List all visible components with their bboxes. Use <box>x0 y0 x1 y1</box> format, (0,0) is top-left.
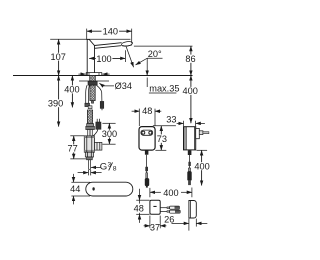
svg-text:390: 390 <box>48 99 63 109</box>
dia 34 label <box>99 81 132 91</box>
pipe diameter ticks <box>78 170 102 176</box>
svg-text:100: 100 <box>96 54 111 64</box>
water stream 20deg line <box>126 47 133 67</box>
deck underside line <box>79 80 109 82</box>
svg-text:48: 48 <box>142 106 152 116</box>
svg-text:400: 400 <box>194 161 209 171</box>
valve neck <box>88 130 93 136</box>
svg-text:44: 44 <box>70 184 80 194</box>
svg-text:107: 107 <box>51 52 66 62</box>
svg-text:20°: 20° <box>148 49 162 59</box>
dimension 86 <box>185 46 196 75</box>
dimension 400 right (cable to PSU) <box>183 76 199 124</box>
svg-text:77: 77 <box>67 144 77 154</box>
valve side outlet <box>95 142 102 150</box>
PSU3 cable 1 with connector <box>160 207 167 209</box>
mounting nut <box>88 81 97 85</box>
dimension 48 (PSU3 height) <box>133 189 149 223</box>
left supply hose <box>86 85 87 103</box>
svg-text:73: 73 <box>157 134 167 144</box>
deck / counter top line <box>13 75 193 77</box>
dimension 48 (PSU width) <box>132 106 162 126</box>
valve assembly: braided inlet hose <box>88 106 92 109</box>
dimension 73 (PSU height) <box>153 126 176 151</box>
plug pin <box>199 131 203 135</box>
dimension 107 <box>51 39 66 75</box>
faucet body side view <box>87 39 133 75</box>
svg-text:37: 37 <box>150 223 160 233</box>
svg-text:140: 140 <box>103 27 118 37</box>
svg-text:max.35: max.35 <box>149 84 179 94</box>
max.35 note with arrow to deck <box>147 58 179 93</box>
solenoid cable connector <box>96 122 101 129</box>
svg-text:86: 86 <box>185 54 195 64</box>
valve union nut <box>87 124 94 127</box>
PSU3 cable 2 with connector <box>160 210 167 212</box>
dimension 400 bottom (plug distance) <box>150 188 192 198</box>
extension line spout outlet level <box>134 45 193 47</box>
dimension 33 (PSU depth) <box>166 114 205 126</box>
svg-text:Ø34: Ø34 <box>115 81 132 91</box>
svg-text:8: 8 <box>113 166 117 173</box>
svg-text:G: G <box>100 161 107 172</box>
svg-text:400: 400 <box>183 86 198 96</box>
power supply unit front view <box>139 127 155 151</box>
PSU side slim view <box>189 201 196 219</box>
G 3/8 label with leader <box>91 161 117 172</box>
extension line faucet top level <box>50 38 130 40</box>
svg-text:400: 400 <box>163 188 178 198</box>
sensor cable connector <box>100 101 104 108</box>
dimension 400 left (hose length) <box>64 76 80 108</box>
dimension 300 (solenoid cable) <box>101 123 117 144</box>
center braided hose <box>90 85 95 100</box>
threaded shank below deck <box>90 76 96 82</box>
dimension 26 (slim depth) <box>164 215 207 231</box>
dimension 77 (valve height) <box>67 136 86 159</box>
base width arrows <box>78 73 85 75</box>
top view oval body <box>86 182 133 196</box>
PSU2 cable with ferrite <box>189 150 191 152</box>
PSU1 cable with ferrite <box>145 150 149 154</box>
connection pipe G3/8 <box>89 160 91 170</box>
extension lines for 140 <box>86 29 88 40</box>
PSU2 cable plug <box>188 168 190 171</box>
20 deg label and leader <box>136 49 163 65</box>
faucet base escutcheon <box>86 73 102 76</box>
dimension 390 <box>48 76 64 127</box>
dimension 400 (PSU2 cable length) <box>194 150 209 185</box>
valve adapter <box>87 157 93 160</box>
power supply unit side view <box>184 127 209 150</box>
PSU1 cable plug <box>146 173 148 178</box>
left hose end fitting <box>85 103 90 106</box>
PSU bottom view box <box>150 200 160 214</box>
svg-text:400: 400 <box>64 85 79 95</box>
sensor cable below deck <box>96 85 102 101</box>
valve hex nut <box>85 152 93 157</box>
svg-text:48: 48 <box>134 203 144 213</box>
svg-text:33: 33 <box>166 114 176 124</box>
valve body <box>84 136 94 152</box>
dimension 44 (body width) <box>70 174 90 205</box>
dimension 100 <box>89 50 125 64</box>
svg-text:300: 300 <box>102 129 117 139</box>
dimension 140 <box>87 27 132 37</box>
dimension 37 (PSU3 width) <box>144 216 167 233</box>
solenoid cable from valve <box>93 129 98 136</box>
